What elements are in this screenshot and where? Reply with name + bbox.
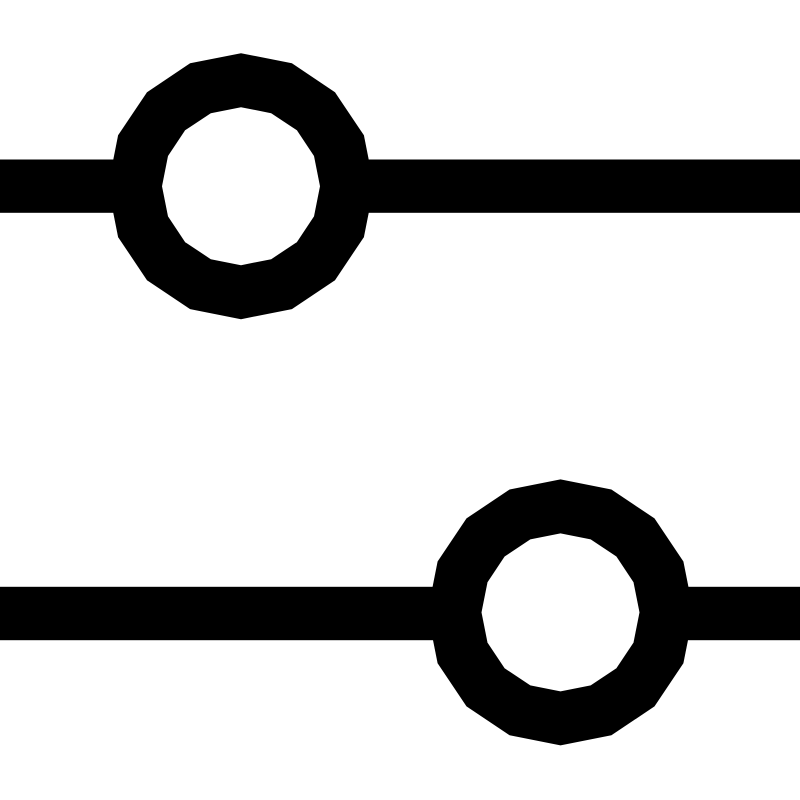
top slider track line [0,160,800,213]
top slider knob hole [162,107,320,265]
bottom slider track line [0,587,800,640]
bottom slider knob outer polygon [428,479,694,745]
bottom slider knob hole [482,533,640,691]
top slider knob outer polygon [108,53,374,319]
